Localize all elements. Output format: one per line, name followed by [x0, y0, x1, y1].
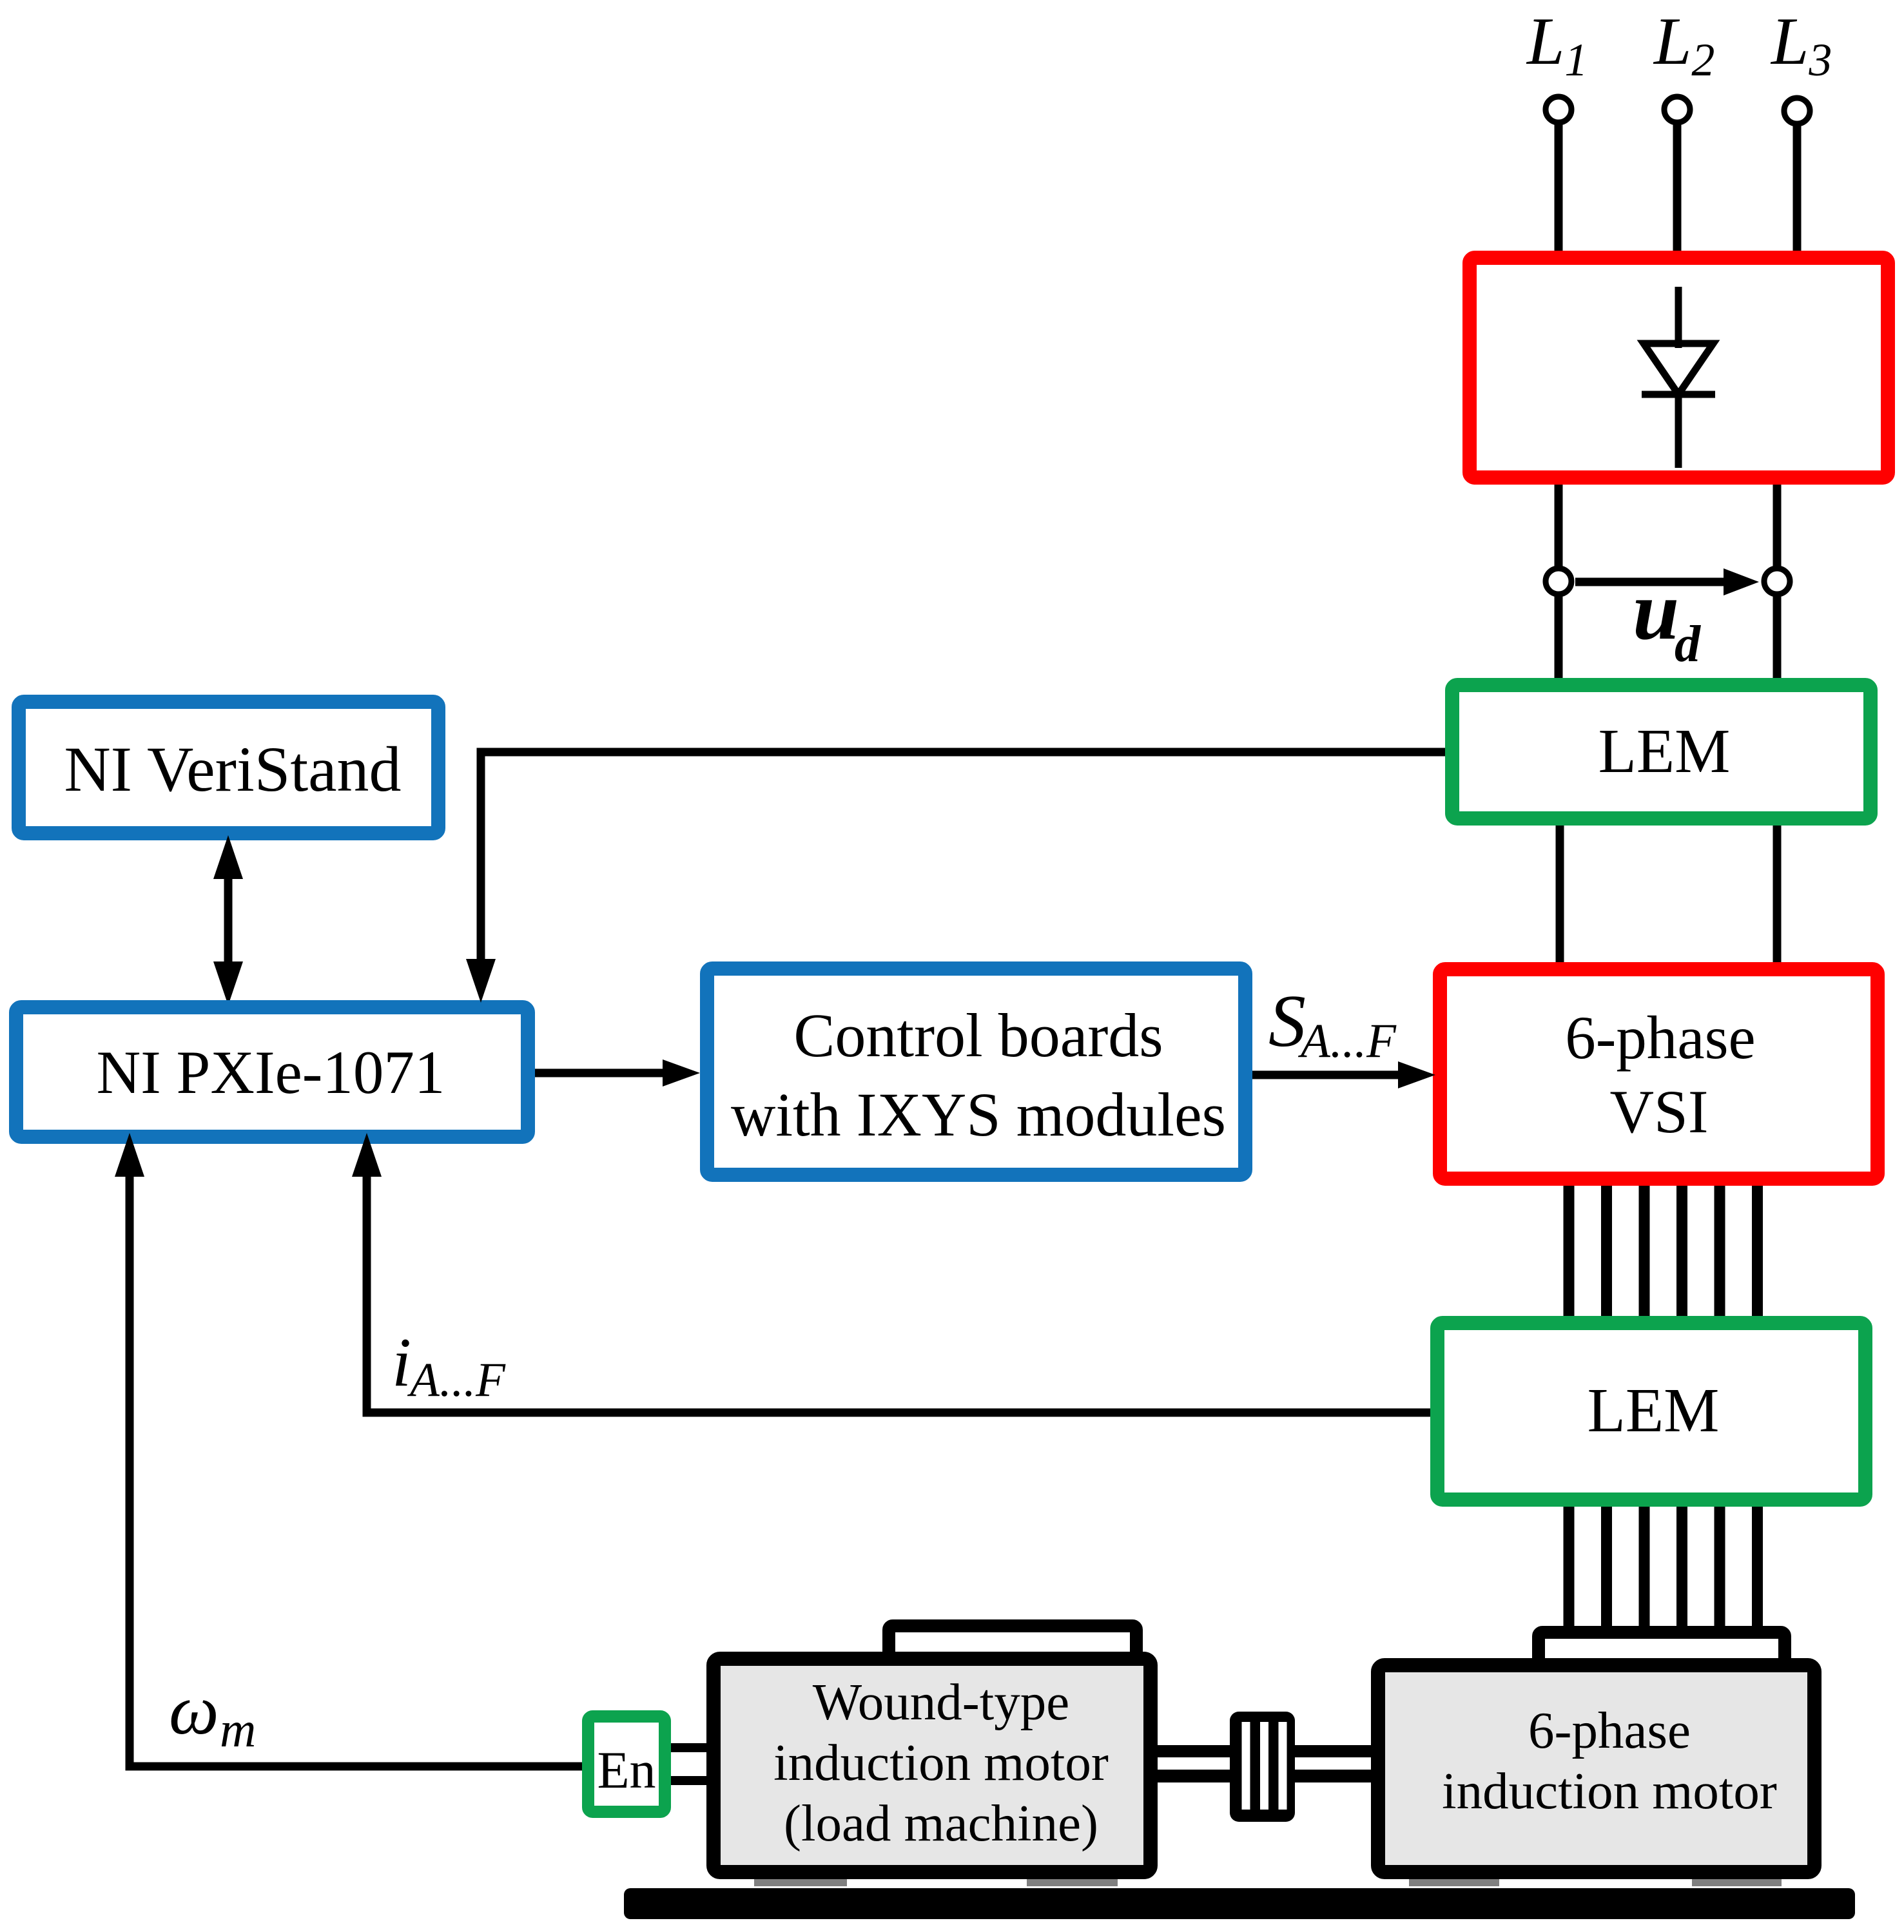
svg-text:A...F: A...F: [407, 1353, 506, 1407]
wire ud feedback vertical with arrow into PXIe: [466, 748, 496, 1003]
wire motor phase A: [1564, 1507, 1575, 1626]
rectifier block: [1470, 258, 1888, 478]
double arrow VeriStand to PXIe: [213, 835, 243, 1005]
svg-text:LEM: LEM: [1588, 1376, 1720, 1445]
svg-text:Wound-type: Wound-type: [813, 1673, 1069, 1731]
arrow ud across DC link: [1575, 568, 1759, 595]
arrow PXIe to control boards: [535, 1059, 700, 1087]
svg-text:A...F: A...F: [1297, 1014, 1397, 1068]
wire DC+ rectifier to node: [1555, 485, 1563, 567]
terminal L3: [1784, 98, 1810, 124]
svg-text:i: i: [392, 1324, 411, 1401]
terminal L2: [1664, 97, 1690, 122]
shaft encoder to wound motor top: [671, 1743, 707, 1752]
shaft wound motor to coupling top: [1158, 1745, 1230, 1757]
label 6-phase induction motor: [1442, 1701, 1777, 1820]
node L3 label: [1770, 3, 1832, 86]
wire VSI phase A: [1564, 1186, 1575, 1316]
terminal cover on wound motor: [889, 1626, 1136, 1671]
label SA...F: [1268, 980, 1397, 1068]
svg-text:6-phase: 6-phase: [1528, 1701, 1691, 1759]
foot wound motor right: [1027, 1864, 1118, 1886]
svg-text:NI VeriStand: NI VeriStand: [64, 733, 401, 805]
label NI VeriStand: [64, 733, 401, 805]
label ud at DC link: [1633, 565, 1701, 673]
svg-text:(load machine): (load machine): [784, 1794, 1098, 1852]
shaft wound motor to coupling bottom: [1158, 1770, 1230, 1782]
svg-text:ω: ω: [169, 1670, 219, 1749]
svg-text:NI PXIe-1071: NI PXIe-1071: [97, 1038, 445, 1106]
wire VSI phase F: [1752, 1186, 1763, 1316]
wire motor phase C: [1639, 1507, 1650, 1626]
host PC block NI VeriStand: [19, 702, 438, 833]
wire omega feedback horizontal: [130, 1763, 582, 1771]
arrow gate signals to VSI: [1252, 1061, 1435, 1088]
wire motor phase E: [1715, 1507, 1725, 1626]
label wound-type induction motor: [773, 1673, 1109, 1852]
shaft coupling to 6-phase motor top: [1295, 1745, 1371, 1757]
wire VSI phase C: [1639, 1186, 1650, 1316]
svg-text:m: m: [220, 1701, 256, 1757]
node L1 label: [1526, 3, 1588, 86]
wire DC- rectifier to node: [1773, 485, 1782, 567]
label Control boards with IXYS modules: [731, 1001, 1226, 1149]
wire L2 to rectifier: [1673, 124, 1682, 251]
base plate: [624, 1888, 1855, 1919]
terminal L1: [1546, 97, 1571, 122]
svg-text:induction motor: induction motor: [1442, 1762, 1777, 1820]
foot 6-phase motor right: [1692, 1864, 1782, 1886]
coupling: [1230, 1712, 1295, 1822]
wire ud feedback horizontal: [481, 748, 1445, 757]
node L2 label: [1653, 3, 1715, 86]
wound-type induction motor body: [714, 1659, 1151, 1872]
gate driver block Control boards with IXYS modules: [707, 969, 1245, 1175]
wire DC+ node to LEM: [1555, 596, 1563, 678]
label LEM U1: [1598, 717, 1731, 786]
label LEM U2: [1588, 1376, 1720, 1445]
encoder En: [588, 1717, 665, 1812]
svg-text:u: u: [1633, 565, 1679, 657]
foot 6-phase motor left: [1409, 1864, 1499, 1886]
svg-text:d: d: [1675, 616, 1701, 673]
label omega m: [169, 1670, 256, 1757]
svg-text:induction motor: induction motor: [773, 1734, 1109, 1792]
wire L1 to rectifier: [1555, 124, 1563, 251]
diode D1 anode lead: [1675, 287, 1682, 348]
wire motor phase F: [1752, 1507, 1763, 1626]
wire motor phase D: [1676, 1507, 1687, 1626]
6-phase induction motor body: [1378, 1665, 1814, 1872]
shaft coupling to 6-phase motor bottom: [1295, 1770, 1371, 1782]
wire LEM to VSI right: [1773, 826, 1782, 962]
svg-text:Control boards: Control boards: [793, 1001, 1163, 1070]
controller block NI PXIe-1071: [16, 1007, 528, 1137]
node DC+: [1546, 568, 1571, 594]
svg-text:VSI: VSI: [1609, 1077, 1708, 1146]
label NI PXIe-1071: [97, 1038, 445, 1106]
wire VSI phase B: [1601, 1186, 1612, 1316]
svg-text:with IXYS modules: with IXYS modules: [731, 1080, 1226, 1149]
wire motor phase B: [1601, 1507, 1612, 1626]
wire VSI phase E: [1715, 1186, 1725, 1316]
terminal box on 6-phase motor: [1539, 1632, 1785, 1697]
svg-text:En: En: [597, 1741, 656, 1799]
wire iA...F feedback vertical with arrow into PXIe: [352, 1133, 382, 1417]
wire iA...F feedback horizontal: [367, 1409, 1430, 1417]
wire L3 to rectifier: [1793, 126, 1802, 251]
DC voltage sensor LEM U1: [1452, 685, 1870, 818]
label 6-phase VSI: [1565, 1003, 1755, 1146]
current sensor LEM U2: [1437, 1323, 1865, 1500]
node DC-: [1764, 568, 1790, 594]
wire LEM to VSI left: [1556, 826, 1564, 962]
diode D1 cathode lead: [1675, 394, 1682, 468]
wire omega feedback vertical with arrow into PXIe: [115, 1133, 144, 1771]
diode D1 triangle: [1644, 343, 1713, 394]
svg-text:6-phase: 6-phase: [1565, 1003, 1755, 1072]
diode D1 cathode bar: [1642, 391, 1715, 398]
label iA...F: [392, 1324, 506, 1407]
shaft encoder to wound motor bottom: [671, 1776, 707, 1785]
svg-text:LEM: LEM: [1598, 717, 1731, 786]
foot wound motor left: [754, 1864, 847, 1886]
inverter block 6-phase VSI: [1440, 969, 1878, 1179]
label En: [597, 1741, 656, 1799]
wire DC- node to LEM: [1773, 596, 1782, 678]
wire VSI phase D: [1676, 1186, 1687, 1316]
